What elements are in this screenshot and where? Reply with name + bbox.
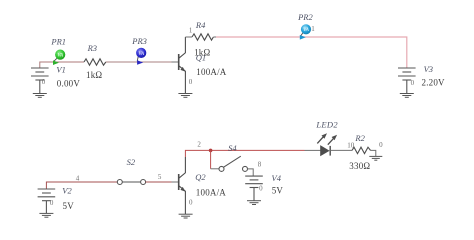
wire Q1 base lead xyxy=(172,61,179,63)
battery V2 xyxy=(38,189,56,213)
svg-text:V3: V3 xyxy=(424,64,433,74)
svg-text:5: 5 xyxy=(158,173,162,181)
resistor R2 xyxy=(352,147,371,153)
wire V1 top to R3 left (net 3) xyxy=(40,62,84,68)
svg-text:V4: V4 xyxy=(272,173,282,183)
resistor R3 xyxy=(84,59,106,65)
wire Q2 base lead xyxy=(172,181,179,183)
ground right of R2 xyxy=(369,156,382,160)
svg-text:VA: VA xyxy=(57,54,64,59)
wire R2 to ground xyxy=(371,150,376,156)
probe PR3 xyxy=(136,48,146,65)
svg-text:100A/A: 100A/A xyxy=(196,188,226,198)
svg-text:PR3: PR3 xyxy=(131,36,147,46)
svg-text:8: 8 xyxy=(258,160,262,168)
ground under V3 xyxy=(400,94,414,98)
ground under V2 xyxy=(39,213,53,217)
resistor R4 xyxy=(185,36,192,38)
svg-text:V1: V1 xyxy=(56,64,65,74)
svg-text:Q2: Q2 xyxy=(195,172,206,182)
battery V1 xyxy=(31,68,49,94)
svg-text:LED2: LED2 xyxy=(315,120,338,130)
svg-text:1: 1 xyxy=(311,25,315,33)
svg-text:330Ω: 330Ω xyxy=(349,161,370,171)
LED2 anode lead xyxy=(305,149,321,151)
switch S2 xyxy=(117,180,145,185)
probe PR2 xyxy=(300,24,311,39)
ground under Q1 xyxy=(178,94,192,98)
svg-text:0: 0 xyxy=(259,185,263,193)
svg-text:PR1: PR1 xyxy=(50,37,66,47)
svg-text:0: 0 xyxy=(189,78,193,86)
switch S4 xyxy=(219,156,248,171)
svg-text:0: 0 xyxy=(411,79,415,87)
svg-text:0: 0 xyxy=(42,78,46,86)
svg-text:S2: S2 xyxy=(127,157,136,167)
wire S4 left lead xyxy=(211,168,219,170)
svg-text:S4: S4 xyxy=(228,143,237,153)
svg-text:2: 2 xyxy=(197,141,201,149)
ground under V4 xyxy=(247,201,261,205)
wire S4 right lead to V4 xyxy=(248,169,254,176)
probe PR1 xyxy=(53,50,65,66)
transistor Q2 xyxy=(179,157,186,214)
svg-text:VA: VA xyxy=(303,28,310,33)
LED LED2 xyxy=(317,133,337,156)
svg-text:V2: V2 xyxy=(62,185,72,195)
wire V2 to S2 (net 4) xyxy=(46,182,117,189)
svg-text:R2: R2 xyxy=(354,133,365,143)
Q2 emitter arrow xyxy=(180,187,185,192)
svg-text:0: 0 xyxy=(379,141,383,149)
transistor Q1 xyxy=(179,37,186,94)
svg-text:5V: 5V xyxy=(272,185,284,195)
ground under Q2 xyxy=(179,214,193,218)
svg-text:0.00V: 0.00V xyxy=(57,79,81,89)
svg-text:2.20V: 2.20V xyxy=(422,78,446,88)
svg-text:5V: 5V xyxy=(63,201,75,211)
ground under V1 xyxy=(33,94,47,98)
wire Q2 collector (net 2) xyxy=(185,150,304,157)
battery V3 xyxy=(398,68,416,94)
wire LED2 to R2 (net 10) xyxy=(330,149,352,151)
svg-text:1kΩ: 1kΩ xyxy=(86,70,102,80)
svg-text:PR2: PR2 xyxy=(297,12,313,22)
svg-text:1: 1 xyxy=(189,27,193,35)
Q1 emitter arrow xyxy=(180,67,185,72)
junction node 2 dot xyxy=(209,149,213,153)
svg-text:100A/A: 100A/A xyxy=(196,67,226,77)
svg-text:1kΩ: 1kΩ xyxy=(194,48,210,58)
battery V4 xyxy=(245,176,263,201)
svg-text:VA: VA xyxy=(138,52,145,57)
wire R3 right to Q1 base xyxy=(106,61,172,63)
svg-text:4: 4 xyxy=(76,174,80,182)
wire junction to S4 xyxy=(210,150,212,168)
svg-text:0: 0 xyxy=(50,199,54,207)
wire R4 to V3 (net 1, pink) xyxy=(216,37,407,68)
svg-text:R4: R4 xyxy=(195,20,206,30)
wire S2 to Q2 base xyxy=(146,181,172,183)
svg-text:R3: R3 xyxy=(87,43,97,53)
svg-text:0: 0 xyxy=(189,199,193,207)
